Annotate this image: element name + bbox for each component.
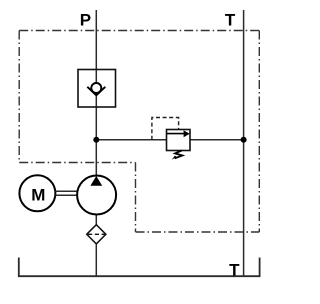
check valve V1 seat <box>87 87 105 96</box>
enclosure boundary dash-dot left <box>18 31 20 163</box>
electric motor M1 <box>19 175 55 211</box>
relief valve RV1 flow arrow <box>167 133 185 135</box>
shaft coupling <box>55 190 77 192</box>
check valve V1 body <box>78 70 116 108</box>
wire P line vertical <box>95 10 97 277</box>
junction node on T line <box>241 137 247 143</box>
enclosure boundary dash-dot bottom <box>136 231 260 233</box>
relief valve RV1 pilot line <box>152 118 179 140</box>
tank reservoir <box>19 258 260 277</box>
enclosure boundary dash-dot mid horizontal <box>19 162 135 164</box>
svg-text:P: P <box>80 10 91 29</box>
pump P1 <box>77 176 116 215</box>
enclosure boundary dash-dot mid vertical <box>135 163 137 233</box>
relief valve RV1 body <box>167 130 191 151</box>
pump P1 flow direction triangle <box>90 176 102 186</box>
junction node on P line <box>93 137 99 143</box>
relief valve RV1 flow arrowhead <box>184 130 190 137</box>
enclosure boundary dash-dot top <box>19 30 259 32</box>
filter F1 element dashed line <box>88 233 105 235</box>
wire relief branch horizontal <box>96 139 243 141</box>
filter F1 <box>87 225 106 244</box>
relief valve RV1 spring <box>175 151 183 159</box>
check valve V1 ball <box>91 83 101 93</box>
svg-text:M: M <box>31 185 45 204</box>
wire T line vertical <box>243 10 245 277</box>
enclosure boundary dash-dot right <box>258 31 260 233</box>
svg-text:T: T <box>225 10 236 29</box>
svg-text:T: T <box>229 260 240 279</box>
